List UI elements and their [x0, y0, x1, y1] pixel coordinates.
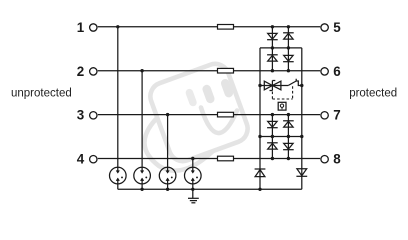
svg-text:protected: protected	[349, 87, 397, 99]
svg-text:8: 8	[333, 152, 341, 167]
svg-text:4: 4	[77, 152, 85, 167]
svg-text:unprotected: unprotected	[11, 87, 72, 99]
svg-text:5: 5	[333, 20, 341, 35]
svg-text:6: 6	[333, 64, 340, 79]
svg-text:7: 7	[333, 108, 340, 123]
svg-text:1: 1	[77, 20, 85, 35]
svg-text:2: 2	[77, 64, 84, 79]
svg-text:3: 3	[77, 108, 84, 123]
